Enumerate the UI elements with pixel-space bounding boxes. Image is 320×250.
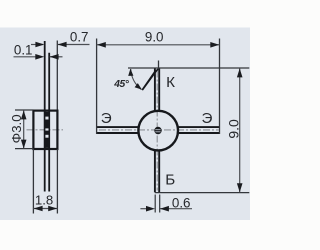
svg-text:9.0: 9.0 <box>226 119 242 139</box>
body (side view) <box>33 111 57 149</box>
svg-text:Э: Э <box>202 110 213 127</box>
svg-text:Э: Э <box>101 110 112 127</box>
centerline horizontal (main view) <box>99 129 219 131</box>
svg-text:0.7: 0.7 <box>70 30 89 45</box>
dimension 0.1 <box>14 42 63 59</box>
dimension PHI 3.0 <box>9 110 34 149</box>
svg-text:9.0: 9.0 <box>145 29 164 44</box>
collector lead K (top) <box>155 68 159 111</box>
dimension 0.6 <box>140 195 192 213</box>
body circle (main view) <box>138 111 178 151</box>
centerline vertical (main view) <box>156 71 158 191</box>
svg-text:К: К <box>166 74 175 91</box>
collector tab (45 deg flag) <box>142 68 159 91</box>
center hole <box>154 127 161 134</box>
dimension 9.0 right (vertical) <box>128 61 249 193</box>
dimension 1.8 <box>33 149 57 214</box>
svg-text:0.1: 0.1 <box>14 42 33 57</box>
svg-text:45°: 45° <box>113 79 130 90</box>
emitter lead E left <box>97 127 139 133</box>
45 deg angle arc with arrow <box>113 69 142 90</box>
dimension 9.0 top <box>97 29 220 134</box>
svg-text:1.8: 1.8 <box>35 193 53 208</box>
dimension 0.7 <box>31 30 90 48</box>
lead section inside body (dark bar with light breaks) <box>44 112 50 148</box>
base lead B (bottom) <box>155 150 159 192</box>
svg-text:0.6: 0.6 <box>172 195 191 210</box>
emitter lead E right <box>178 127 220 133</box>
centerline (side view) <box>27 129 64 131</box>
svg-text:Φ3.0: Φ3.0 <box>9 114 24 143</box>
extension line 0.7 right (down to body top corner) <box>56 41 58 111</box>
drawing band background <box>0 28 250 221</box>
lead (side view, left edge / ext line for 0.7 and 0.1) <box>44 41 46 192</box>
svg-text:Б: Б <box>165 172 175 189</box>
lead (side view, right edge) <box>48 53 50 192</box>
